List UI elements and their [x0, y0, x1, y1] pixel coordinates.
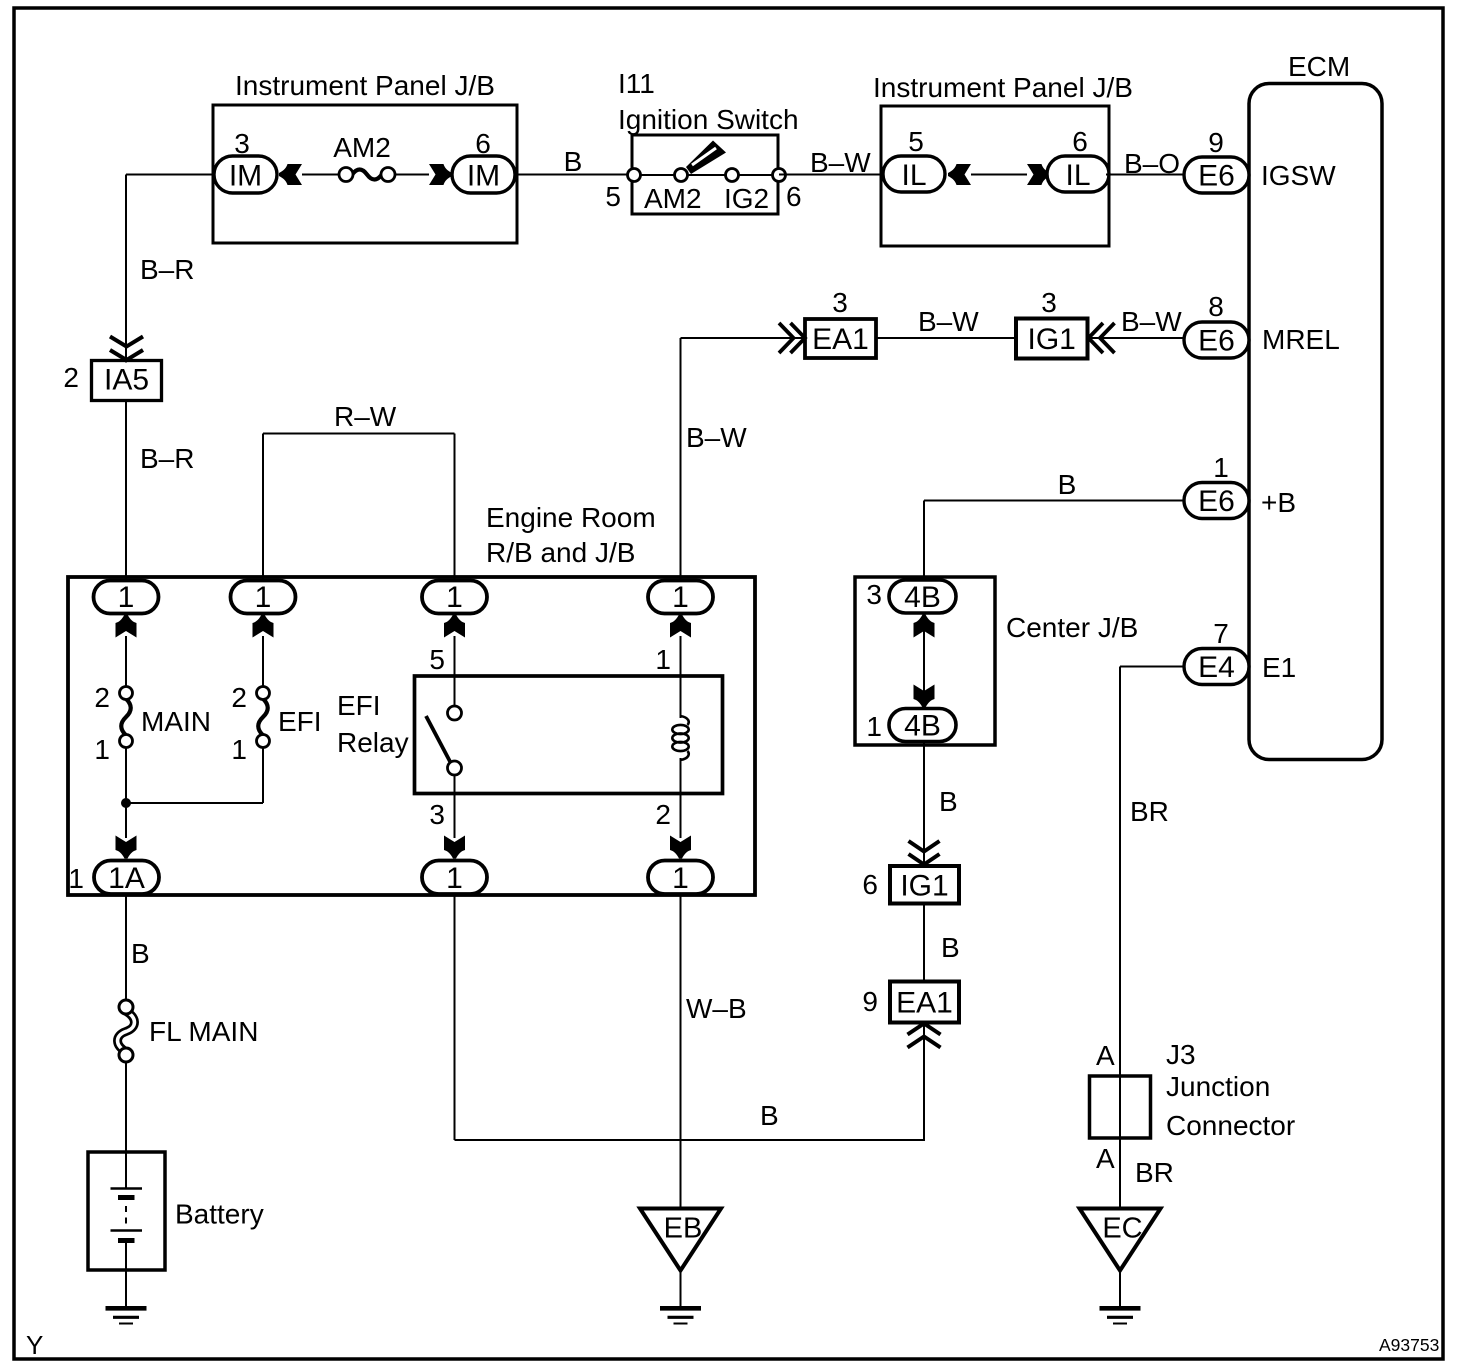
- terminal AM2 contact circle: [675, 169, 688, 182]
- svg-text:1A: 1A: [108, 862, 145, 895]
- connector pin 1 oval (EFI fuse feed): [231, 581, 296, 614]
- connector IG1 pin 3 box: [1016, 319, 1088, 359]
- svg-text:9: 9: [862, 986, 878, 1017]
- wire battery to ground: [125, 1270, 127, 1308]
- connector pin 1 oval (relay coil feed): [648, 581, 713, 614]
- svg-text:IG1: IG1: [900, 870, 948, 903]
- svg-text:IA5: IA5: [104, 364, 149, 397]
- wire FL MAIN to Battery: [125, 1062, 127, 1152]
- svg-text:B: B: [1058, 469, 1077, 500]
- svg-text:6: 6: [1072, 126, 1088, 157]
- wire B-W from EA1 to IG1: [876, 337, 1016, 339]
- relay contact lower circle: [448, 761, 462, 775]
- svg-text:B–W: B–W: [1121, 306, 1182, 337]
- svg-text:5: 5: [429, 644, 445, 675]
- svg-text:A: A: [1096, 1143, 1115, 1174]
- wire MAIN fuse to junction dot: [125, 748, 127, 838]
- connector IL pin 5 oval: [883, 156, 945, 192]
- connector E6 pin 9 oval: [1184, 157, 1249, 193]
- arrowhead up below col1 oval: [116, 615, 137, 638]
- svg-text:5: 5: [908, 126, 924, 157]
- relay coil: [681, 716, 689, 725]
- wire relay contact to col3 bottom oval: [454, 775, 456, 838]
- arrowhead down above 4B pin 1: [914, 685, 935, 708]
- svg-text:IM: IM: [229, 160, 262, 193]
- svg-text:1: 1: [118, 581, 135, 614]
- arrowhead down above col3 bottom oval: [444, 836, 465, 859]
- ground symbol below battery: [106, 1306, 147, 1311]
- svg-text:3: 3: [866, 579, 882, 610]
- svg-text:6: 6: [862, 869, 878, 900]
- wire EC triangle to ground: [1119, 1271, 1121, 1309]
- wire B from IG1 to EA1: [923, 904, 925, 982]
- wire B-W from IG1 to ECM MREL: [1087, 337, 1184, 339]
- svg-text:2: 2: [231, 682, 247, 713]
- arrowhead at IM pin 6: [429, 164, 452, 185]
- wire from fuse AM2 to arrowhead: [394, 174, 429, 176]
- battery cell plate long 2: [111, 1229, 143, 1231]
- junction block: Instrument Panel J/B (left) box and title: [213, 105, 517, 243]
- svg-text:B–W: B–W: [918, 306, 979, 337]
- battery internal wire top: [125, 1152, 127, 1189]
- connector IM pin 3 oval: [214, 156, 277, 193]
- svg-text:IL: IL: [901, 159, 926, 192]
- connector junction chevrons into IG1: [909, 841, 940, 852]
- connector IM pin 6 oval: [452, 156, 515, 193]
- svg-text:6: 6: [786, 181, 802, 212]
- svg-text:3: 3: [832, 287, 848, 318]
- svg-text:B–O: B–O: [1124, 148, 1180, 179]
- svg-text:1: 1: [672, 862, 689, 895]
- svg-text:1: 1: [68, 863, 84, 894]
- svg-text:B–R: B–R: [140, 254, 194, 285]
- svg-text:BR: BR: [1130, 796, 1169, 827]
- wire col2 to EFI fuse: [262, 636, 264, 688]
- svg-text:AM2: AM2: [333, 132, 391, 163]
- svg-text:EA1: EA1: [896, 987, 953, 1020]
- arrowhead at IL pin 5: [948, 164, 971, 185]
- connector IA5 box: [92, 361, 162, 401]
- svg-text:E4: E4: [1198, 651, 1235, 684]
- connector EA1 pin 9 box: [890, 982, 959, 1023]
- svg-text:ECM: ECM: [1288, 51, 1350, 82]
- arrowhead down above 1A oval: [116, 836, 137, 859]
- svg-text:EFI: EFI: [337, 690, 381, 721]
- svg-text:IG1: IG1: [1028, 323, 1076, 356]
- svg-text:B: B: [760, 1100, 779, 1131]
- svg-text:W–B: W–B: [686, 993, 747, 1024]
- fuse EFI symbol: [258, 699, 268, 736]
- connector pin 1 oval (MAIN fuse feed): [94, 581, 159, 614]
- svg-text:7: 7: [1213, 618, 1229, 649]
- ECM module body: [1249, 84, 1382, 760]
- svg-text:B: B: [941, 932, 960, 963]
- svg-text:1: 1: [255, 581, 272, 614]
- wire B-R from IA5 down to Engine Room R/B: [125, 401, 127, 583]
- arrowhead up below col4 oval: [670, 615, 691, 638]
- svg-text:Junction: Junction: [1166, 1071, 1270, 1102]
- wire W-B from coil return oval down to EB ground: [680, 894, 682, 1208]
- svg-text:IL: IL: [1065, 159, 1090, 192]
- ignition switch I11 box: [632, 135, 778, 214]
- svg-text:J3: J3: [1166, 1039, 1196, 1070]
- svg-text:R/B and J/B: R/B and J/B: [486, 537, 635, 568]
- svg-text:IM: IM: [467, 160, 500, 193]
- junction block: Instrument Panel J/B (right) box and title: [881, 106, 1109, 246]
- svg-text:E1: E1: [1262, 652, 1296, 683]
- relay EFI Relay box: [415, 676, 723, 794]
- arrowhead up below col2 oval: [253, 615, 274, 638]
- svg-text:5: 5: [605, 181, 621, 212]
- connector junction chevrons into IA5: [110, 337, 143, 347]
- svg-text:3: 3: [429, 799, 445, 830]
- connector EA1 pin 3 box: [805, 319, 876, 358]
- svg-text:Instrument Panel J/B: Instrument Panel J/B: [235, 70, 495, 101]
- svg-text:2: 2: [63, 362, 79, 393]
- connector E6 pin 8 oval: [1184, 322, 1249, 358]
- svg-text:Center J/B: Center J/B: [1006, 612, 1138, 643]
- wire B from 1A oval to FL MAIN: [125, 894, 127, 1001]
- battery cell plate short 1: [118, 1195, 135, 1200]
- wire B-W horizontal to EA1 pin 3: [681, 337, 806, 339]
- svg-text:4B: 4B: [904, 581, 941, 614]
- svg-text:9: 9: [1208, 127, 1224, 158]
- svg-text:A: A: [1096, 1040, 1115, 1071]
- svg-text:Instrument Panel J/B: Instrument Panel J/B: [873, 72, 1133, 103]
- junction connector J3 box: [1090, 1076, 1151, 1138]
- svg-text:BR: BR: [1135, 1157, 1174, 1188]
- battery cell plate short 2: [118, 1238, 135, 1243]
- terminal IG2 contact circle: [726, 169, 739, 182]
- battery center dashed link: [125, 1206, 127, 1226]
- fusible link FL MAIN symbol: [118, 1011, 135, 1053]
- svg-text:E6: E6: [1198, 485, 1235, 518]
- svg-text:1: 1: [231, 734, 247, 765]
- relay switch lever: [426, 716, 450, 762]
- svg-text:IG2: IG2: [724, 183, 769, 214]
- wire B-O from Instrument Panel J/B to ECM IGSW: [1106, 174, 1184, 176]
- svg-text:4B: 4B: [904, 710, 941, 743]
- svg-text:3: 3: [1041, 287, 1057, 318]
- svg-text:Y: Y: [26, 1330, 43, 1360]
- junction block: Engine Room R/B and J/B box and title: [68, 577, 755, 895]
- ignition switch internal wires: [634, 174, 675, 176]
- junction dot: [121, 798, 131, 808]
- svg-text:FL MAIN: FL MAIN: [149, 1016, 258, 1047]
- svg-text:Ignition Switch: Ignition Switch: [618, 104, 799, 135]
- svg-text:B: B: [131, 938, 150, 969]
- connector pin 1 oval (relay contact feed): [422, 581, 487, 614]
- wire between IL arrowheads: [971, 174, 1027, 176]
- connector junction chevrons into IG1: [1089, 323, 1104, 353]
- svg-text:MREL: MREL: [1262, 324, 1340, 355]
- battery cell plate long 1: [111, 1187, 143, 1189]
- wire between 4B ovals: [923, 613, 925, 709]
- svg-text:1: 1: [1213, 452, 1229, 483]
- connector 4B pin 1 oval: [889, 709, 956, 742]
- fuse MAIN symbol: [121, 699, 131, 736]
- connector 1A oval: [94, 861, 159, 895]
- connector junction chevrons out of EA1: [908, 1024, 941, 1035]
- svg-text:AM2: AM2: [644, 183, 702, 214]
- wire col3 to relay contact: [454, 636, 456, 707]
- ground triangle EC: [1080, 1209, 1161, 1271]
- ignition switch lever: [686, 141, 726, 175]
- wire B from Instrument Panel J/B to ignition switch: [517, 174, 632, 176]
- arrowhead down above col4 bottom oval: [670, 836, 691, 859]
- svg-text:B: B: [939, 786, 958, 817]
- arrowhead up below 4B pin 3: [914, 615, 935, 638]
- wire B from Center J/B to IG1: [923, 742, 925, 867]
- svg-text:Connector: Connector: [1166, 1110, 1295, 1141]
- wire B-R from IM pin 3 down to IA5: [125, 175, 127, 363]
- relay contact upper circle: [448, 706, 462, 720]
- connector pin 1 oval (relay output): [422, 861, 487, 895]
- svg-text:1: 1: [866, 711, 882, 742]
- wire B horizontal from Engine Room relay to EA1 branch: [455, 1139, 926, 1141]
- svg-text:+B: +B: [1261, 487, 1296, 518]
- battery internal wire bottom: [125, 1241, 127, 1271]
- wire col1 to MAIN fuse: [125, 636, 127, 688]
- svg-text:8: 8: [1208, 291, 1224, 322]
- svg-text:B–R: B–R: [140, 443, 194, 474]
- svg-text:B–W: B–W: [686, 422, 747, 453]
- svg-text:EC: EC: [1102, 1213, 1142, 1245]
- wire junction dot to EFI fuse column: [126, 802, 263, 804]
- wire from EA1 down to B junction: [923, 1023, 925, 1141]
- svg-text:2: 2: [94, 682, 110, 713]
- svg-text:1: 1: [94, 734, 110, 765]
- svg-text:2: 2: [655, 799, 671, 830]
- svg-text:R–W: R–W: [334, 401, 397, 432]
- svg-text:E6: E6: [1198, 325, 1235, 358]
- wire R-W bracket from EFI fuse to EFI relay pin 5: [263, 433, 455, 435]
- connector E6 pin 1 oval: [1184, 483, 1249, 519]
- svg-text:EA1: EA1: [812, 323, 869, 356]
- connector junction chevrons into EA1: [779, 323, 794, 353]
- arrowhead at IL pin 6: [1027, 164, 1050, 185]
- svg-text:1: 1: [672, 581, 689, 614]
- wire from relay output oval down to B junction: [454, 894, 456, 1140]
- ground symbol below EB: [660, 1306, 701, 1311]
- svg-text:A93753: A93753: [1379, 1335, 1439, 1355]
- svg-text:Engine Room: Engine Room: [486, 502, 656, 533]
- svg-text:EB: EB: [664, 1213, 703, 1245]
- wire EB triangle to ground: [680, 1271, 682, 1309]
- ground symbol below EC: [1100, 1306, 1141, 1311]
- wire B-W from ignition switch to Instrument Panel J/B: [779, 174, 884, 176]
- connector E4 pin 7 oval: [1184, 649, 1249, 685]
- svg-text:1: 1: [446, 581, 463, 614]
- svg-text:E6: E6: [1198, 160, 1235, 193]
- arrowhead at IM pin 3: [279, 164, 302, 185]
- wire col4 to relay coil: [680, 636, 682, 718]
- svg-text:1: 1: [446, 862, 463, 895]
- wire from arrowhead to fuse AM2: [302, 174, 340, 176]
- wire EFI fuse to junction rail: [262, 748, 264, 803]
- wire relay coil to col4 bottom oval: [680, 758, 682, 838]
- connector IG1 pin 6 box: [890, 866, 959, 904]
- svg-text:B: B: [564, 146, 583, 177]
- svg-text:EFI: EFI: [278, 706, 322, 737]
- svg-text:1: 1: [655, 644, 671, 675]
- fuse AM2 symbol: [352, 170, 382, 180]
- svg-text:IGSW: IGSW: [1261, 160, 1336, 191]
- svg-text:Battery: Battery: [175, 1199, 264, 1230]
- battery box: [88, 1152, 165, 1270]
- wire B from Center J/B to ECM +B: [924, 500, 1184, 502]
- connector 4B pin 3 oval: [889, 580, 956, 613]
- ground triangle EB: [640, 1209, 721, 1271]
- wire BR from ECM E1 down to EC ground: [1120, 666, 1184, 668]
- connector IL pin 6 oval: [1047, 156, 1109, 192]
- terminal 6 circle: [773, 169, 786, 182]
- wire from IM pin 3 to vertical branch: [126, 174, 213, 176]
- svg-text:I11: I11: [618, 68, 655, 99]
- junction block: Center J/B box and title: [855, 577, 995, 745]
- arrowhead up below col3 oval: [444, 615, 465, 638]
- terminal 5 circle: [628, 169, 641, 182]
- svg-text:MAIN: MAIN: [141, 706, 211, 737]
- connector pin 1 oval (relay coil return): [648, 861, 713, 895]
- wire B-W vertical from EA1 pin 3 down to Engine Room R/B: [680, 338, 682, 582]
- svg-text:Relay: Relay: [337, 727, 409, 758]
- svg-text:B–W: B–W: [810, 147, 871, 178]
